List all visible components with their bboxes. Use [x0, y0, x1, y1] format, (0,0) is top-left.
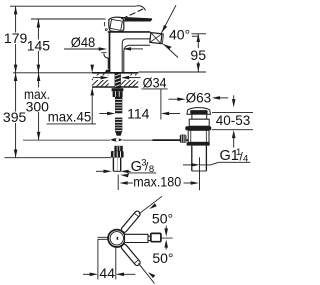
- deck slab top line: [92, 72, 138, 74]
- G3/8 leader arrow: [120, 174, 129, 178]
- svg-text:114: 114: [127, 105, 150, 121]
- threaded stud lower: [115, 118, 122, 132]
- bottom view back stub: [98, 237, 109, 239]
- faucet spout outer underside: [124, 45, 150, 73]
- lever axis line: [161, 237, 173, 239]
- hose coupling nut: [111, 151, 124, 158]
- drain body: [188, 130, 209, 142]
- dimension 95 line: [197, 34, 199, 72]
- reference line 395 bottom: [5, 157, 112, 159]
- svg-text:395: 395: [3, 109, 27, 125]
- svg-text:50°: 50°: [152, 210, 173, 226]
- max45 leader vertical: [91, 91, 93, 124]
- svg-text:95: 95: [190, 47, 206, 63]
- 50 degree upper dimension line: [139, 196, 162, 214]
- drain knob neck: [192, 114, 207, 119]
- svg-text:50°: 50°: [152, 250, 173, 266]
- dimension 44 right arrow: [116, 273, 124, 277]
- bottom view lower tilted lever: [120, 243, 141, 266]
- hose neck: [114, 146, 122, 151]
- G1 1/4 leader and arrow: [200, 162, 219, 165]
- max45 arrow above deck: [91, 66, 93, 69]
- dimension 114 right arrow: [161, 112, 169, 116]
- svg-text:40°: 40°: [169, 27, 190, 43]
- deck reference extension line left: [13, 72, 92, 74]
- pop-up rod line: [123, 139, 153, 141]
- pop-up rod grip: [180, 135, 187, 143]
- dimension Ø34 halo: [93, 75, 109, 80]
- dimension 44 left arrow: [83, 273, 93, 275]
- lever knob inner square: [110, 19, 123, 30]
- mounting washer and nut: [112, 88, 124, 91]
- 50 degree lower dimension line: [139, 263, 155, 283]
- svg-text:145: 145: [27, 37, 51, 53]
- dimension Ø63 right arrow: [212, 96, 220, 100]
- hose callout arrows: [96, 170, 106, 172]
- dimension 145 line: [37, 19, 39, 73]
- aerator tip square: [150, 33, 162, 44]
- deck hatch left: [92, 74, 109, 87]
- dimension 95 top tick: [192, 33, 207, 35]
- faucet body left edge: [109, 32, 111, 73]
- 40 degree spray angle upper line: [161, 5, 176, 33]
- 40 degree spray angle lower line: [163, 44, 178, 58]
- dimension max180 left arrow: [119, 181, 127, 185]
- threaded stud upper: [115, 97, 122, 113]
- dimension 40-53 top arrow: [233, 95, 235, 102]
- dimension max300 arrows: [37, 73, 41, 81]
- svg-text:300: 300: [26, 99, 50, 115]
- dimension 114 left arrow: [99, 113, 110, 115]
- deck slab bottom line: [92, 86, 138, 88]
- knob left squiggle: [103, 22, 106, 26]
- svg-text:44: 44: [99, 265, 115, 281]
- max45 arrow below deck: [90, 87, 94, 95]
- hose tube: [112, 158, 114, 172]
- deck hatch right: [121, 74, 138, 87]
- svg-text:179: 179: [4, 30, 28, 46]
- raised lever dashed: [122, 9, 143, 19]
- aerator cross hatch: [150, 33, 162, 44]
- faucet back hook detail: [104, 54, 109, 69]
- dimension max300 line: [38, 73, 40, 140]
- cross fitting: [110, 138, 123, 141]
- faucet body top edge: [108, 31, 150, 33]
- svg-text:max.45: max.45: [48, 108, 92, 124]
- svg-text:max.180: max.180: [133, 174, 181, 189]
- rotation hook at raised lever: [136, 6, 145, 11]
- Ø48 second arrow pointing left at inner body edge: [123, 47, 131, 51]
- lever blade: [116, 17, 151, 21]
- drain upper body: [189, 119, 209, 126]
- 44 extension lines: [97, 239, 99, 279]
- lever knob cap: [109, 17, 124, 31]
- drain tailpipe: [192, 146, 207, 171]
- dimension Ø34 arrows: [93, 77, 104, 79]
- 50 degree connector vertical: [165, 226, 167, 230]
- drain knob dark band: [190, 110, 207, 114]
- bottom view upper tilted lever: [120, 210, 141, 233]
- bottom view body circle: [108, 230, 125, 247]
- dimension max180 right arrow: [184, 182, 194, 184]
- 40-53 lower extension line: [212, 129, 253, 131]
- drain lower band: [187, 142, 210, 145]
- dimension 395 line: [15, 73, 17, 158]
- max180 left extension line: [117, 175, 119, 191]
- dimension 40-53 bottom arrow: [232, 130, 236, 138]
- svg-text:Ø34: Ø34: [143, 76, 167, 91]
- faucet base foot: [105, 70, 111, 73]
- svg-text:Ø63: Ø63: [186, 90, 212, 105]
- svg-text:40-53: 40-53: [216, 113, 251, 128]
- drain flange: [185, 126, 211, 130]
- dimension 145 extension line: [31, 18, 106, 20]
- drain pipe extension line: [199, 157, 201, 190]
- dimension 179 arrows: [14, 6, 18, 14]
- dimension 179 extension line top: [10, 5, 136, 7]
- drain knob dome: [187, 108, 211, 115]
- max300 reference line: [23, 139, 110, 141]
- aerator mouth face: [161, 34, 164, 44]
- bottom view lever tip block: [151, 233, 161, 241]
- svg-text:4: 4: [243, 154, 248, 165]
- extension line from Ø34 down to 114: [160, 89, 162, 120]
- dimension 95 bottom reference line: [139, 71, 207, 73]
- threaded shank through deck: [115, 73, 121, 88]
- dimension 179 line: [15, 6, 17, 73]
- dimension 145 arrows: [37, 19, 41, 27]
- leader from 40deg to 95 line: [192, 35, 198, 37]
- faucet spout inner corner line: [122, 39, 150, 73]
- bottom view straight lever arm: [125, 234, 149, 242]
- dimension 395 arrows: [14, 73, 18, 81]
- dimension Ø63 left arrow: [169, 98, 182, 100]
- svg-text:Ø48: Ø48: [71, 34, 96, 50]
- 40-53 upper extension line: [212, 111, 253, 113]
- stud cone: [115, 131, 122, 136]
